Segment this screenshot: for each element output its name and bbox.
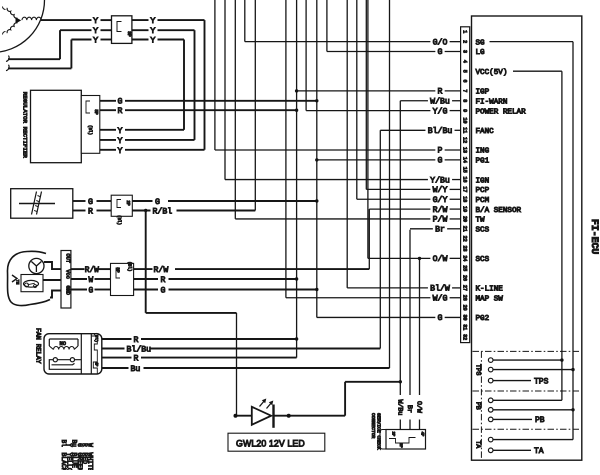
svg-text:PB: PB bbox=[535, 416, 545, 425]
svg-text:PG2: PG2 bbox=[476, 315, 490, 323]
svg-text:(Bl): (Bl) bbox=[94, 333, 99, 343]
svg-text:G: G bbox=[438, 314, 443, 323]
svg-text:4P: 4P bbox=[94, 362, 98, 367]
svg-text:VCC(5V): VCC(5V) bbox=[476, 69, 508, 77]
svg-text:11: 11 bbox=[461, 127, 467, 133]
svg-text:W/Bu: W/Bu bbox=[396, 400, 403, 416]
svg-text:23: 23 bbox=[461, 245, 467, 251]
svg-text:K-LINE: K-LINE bbox=[476, 286, 504, 294]
svg-text:CONNECTOR: CONNECTOR bbox=[370, 413, 376, 439]
svg-text:4P: 4P bbox=[420, 432, 424, 437]
svg-text:R/W: R/W bbox=[85, 267, 99, 275]
svg-text:R: R bbox=[134, 355, 139, 364]
svg-text:P/W: P/W bbox=[433, 215, 448, 225]
svg-text:22: 22 bbox=[461, 236, 467, 242]
svg-text:10: 10 bbox=[461, 117, 467, 123]
svg-text:Y/Bu: Y/Bu bbox=[430, 175, 450, 185]
svg-text:3P: 3P bbox=[126, 31, 132, 37]
svg-text:O/W: O/W bbox=[416, 401, 423, 413]
svg-text:12: 12 bbox=[461, 137, 467, 143]
svg-text:SG: SG bbox=[476, 39, 486, 47]
svg-text:Bl/Bu: Bl/Bu bbox=[428, 126, 453, 136]
svg-text:W/Y: W/Y bbox=[433, 185, 448, 195]
svg-text:O/W: O/W bbox=[433, 254, 448, 264]
svg-text:14: 14 bbox=[461, 157, 467, 163]
svg-text:2P: 2P bbox=[391, 432, 395, 437]
svg-text:G/Y: G/Y bbox=[433, 195, 448, 205]
svg-text:Y: Y bbox=[150, 36, 155, 46]
svg-text:Y: Y bbox=[150, 16, 155, 26]
svg-text:1: 1 bbox=[461, 30, 467, 33]
svg-text:TPS: TPS bbox=[475, 364, 482, 376]
svg-text:G: G bbox=[161, 287, 166, 296]
svg-text:(Bl): (Bl) bbox=[116, 215, 121, 225]
svg-text:27: 27 bbox=[461, 285, 467, 291]
svg-text:R/Bl: R/Bl bbox=[153, 207, 173, 217]
svg-text:Bl/W: Bl/W bbox=[430, 284, 450, 294]
svg-text:R/W: R/W bbox=[433, 205, 448, 215]
svg-text:Y: Y bbox=[118, 127, 123, 136]
svg-text:W/G: W/G bbox=[433, 293, 448, 303]
svg-text:16: 16 bbox=[461, 177, 467, 183]
svg-text:G: G bbox=[155, 198, 160, 207]
svg-text:4: 4 bbox=[461, 60, 467, 63]
svg-text:POWER RELAR: POWER RELAR bbox=[476, 108, 527, 116]
svg-text:Y: Y bbox=[118, 147, 123, 156]
svg-text:G: G bbox=[438, 48, 443, 57]
svg-text:G: G bbox=[118, 98, 123, 107]
svg-text:GND: GND bbox=[64, 286, 70, 295]
svg-text:W/Bu: W/Bu bbox=[430, 96, 450, 106]
svg-text:GWL20 12V LED: GWL20 12V LED bbox=[236, 439, 305, 449]
svg-text:5: 5 bbox=[461, 70, 467, 73]
svg-text:8: 8 bbox=[461, 99, 467, 102]
svg-text:17: 17 bbox=[461, 186, 467, 192]
svg-text:30: 30 bbox=[461, 314, 467, 320]
svg-text:FANC: FANC bbox=[476, 128, 495, 136]
svg-text:MAP SW: MAP SW bbox=[476, 295, 504, 303]
svg-text:19: 19 bbox=[461, 206, 467, 212]
svg-text:Y: Y bbox=[118, 137, 123, 146]
svg-text:31: 31 bbox=[461, 324, 467, 330]
svg-text:G: G bbox=[89, 288, 94, 296]
svg-text:SCS: SCS bbox=[476, 256, 490, 264]
svg-text:TA: TA bbox=[475, 441, 482, 449]
svg-text:Br: Br bbox=[435, 226, 445, 235]
svg-text:3: 3 bbox=[461, 50, 467, 53]
svg-text:ING: ING bbox=[476, 148, 490, 156]
svg-text:TPS: TPS bbox=[534, 377, 549, 386]
svg-text:Y: Y bbox=[93, 36, 98, 46]
svg-text:(Bl): (Bl) bbox=[127, 261, 132, 271]
svg-text:Vcc: Vcc bbox=[64, 270, 70, 279]
svg-text:PG1: PG1 bbox=[476, 158, 490, 166]
svg-text:SERVICE CHECK: SERVICE CHECK bbox=[375, 413, 381, 450]
svg-text:2P: 2P bbox=[125, 200, 130, 206]
svg-text:P: P bbox=[438, 147, 443, 156]
svg-text:TH: TH bbox=[15, 280, 19, 285]
svg-text:R/W: R/W bbox=[154, 265, 169, 275]
svg-text:29: 29 bbox=[461, 305, 467, 311]
svg-text:18: 18 bbox=[461, 196, 467, 202]
svg-text:7: 7 bbox=[461, 89, 467, 92]
svg-text:IGN: IGN bbox=[476, 177, 490, 185]
svg-text:6: 6 bbox=[461, 80, 467, 83]
svg-text:3P: 3P bbox=[115, 267, 120, 273]
svg-text:W: W bbox=[89, 277, 94, 285]
svg-text:(Bl): (Bl) bbox=[87, 125, 92, 135]
svg-text:W: W bbox=[87, 443, 94, 447]
svg-text:G: G bbox=[88, 198, 93, 207]
svg-text:26: 26 bbox=[461, 275, 467, 281]
svg-text:R: R bbox=[118, 107, 123, 116]
svg-text:Br: Br bbox=[406, 405, 413, 413]
svg-text:IGP: IGP bbox=[476, 89, 490, 97]
svg-text:9: 9 bbox=[461, 109, 467, 112]
svg-text:PCP: PCP bbox=[476, 187, 490, 195]
svg-text:R: R bbox=[88, 207, 93, 216]
svg-text:15: 15 bbox=[461, 167, 467, 173]
svg-text:20: 20 bbox=[461, 216, 467, 222]
svg-text:13: 13 bbox=[461, 147, 467, 153]
svg-text:Y/G: Y/G bbox=[433, 106, 448, 116]
svg-text:Y: Y bbox=[93, 16, 98, 26]
svg-text:SCS: SCS bbox=[476, 227, 490, 235]
svg-text:OUT: OUT bbox=[64, 254, 70, 263]
svg-text:2: 2 bbox=[461, 40, 467, 43]
svg-text:24: 24 bbox=[461, 255, 467, 261]
svg-text:R: R bbox=[161, 276, 166, 285]
svg-text:PCM: PCM bbox=[476, 197, 490, 205]
svg-text:REGULATOR RECTIFIER: REGULATOR RECTIFIER bbox=[22, 92, 29, 159]
svg-text:WHITE: WHITE bbox=[87, 453, 94, 471]
svg-text:Bu: Bu bbox=[131, 365, 141, 374]
svg-text:5P: 5P bbox=[93, 109, 98, 115]
svg-text:Bl/Bu: Bl/Bu bbox=[127, 345, 152, 355]
svg-text:G: G bbox=[438, 157, 443, 166]
svg-text:25: 25 bbox=[461, 265, 467, 271]
svg-text:28: 28 bbox=[461, 295, 467, 301]
svg-text:FAN RELAY: FAN RELAY bbox=[35, 328, 42, 364]
svg-text:FI-WARN: FI-WARN bbox=[476, 98, 508, 106]
svg-text:PB: PB bbox=[475, 402, 482, 410]
svg-text:G/O: G/O bbox=[433, 37, 448, 47]
svg-text:R: R bbox=[134, 336, 139, 345]
svg-text:2P: 2P bbox=[398, 443, 402, 448]
svg-text:LG: LG bbox=[476, 49, 486, 57]
svg-text:TA: TA bbox=[534, 447, 544, 456]
svg-text:R: R bbox=[438, 88, 443, 97]
svg-text:FI-ECU: FI-ECU bbox=[589, 219, 600, 254]
svg-text:B/A SENSOR: B/A SENSOR bbox=[476, 207, 522, 215]
svg-text:21: 21 bbox=[461, 226, 467, 232]
svg-text:32: 32 bbox=[461, 334, 467, 340]
svg-text:TW: TW bbox=[476, 217, 486, 225]
